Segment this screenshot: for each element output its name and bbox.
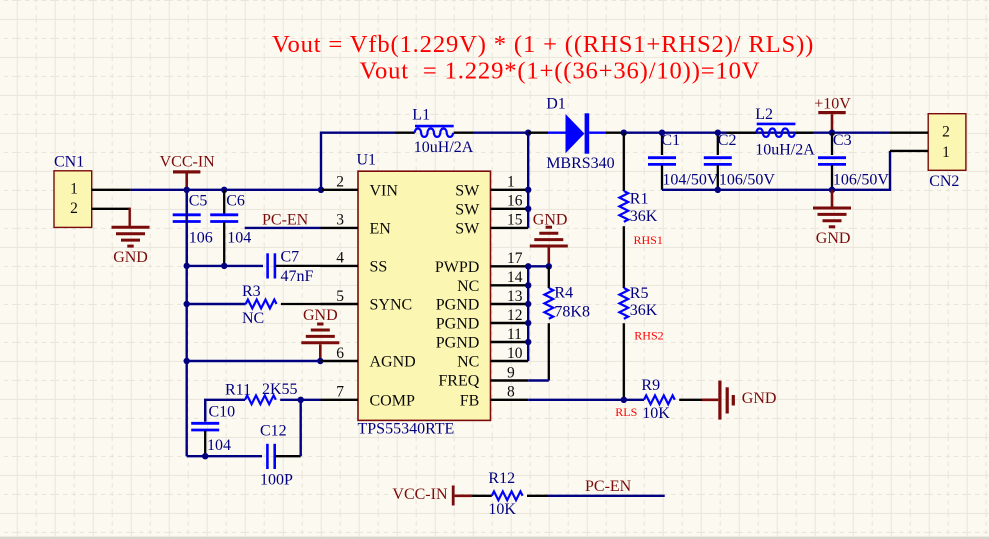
wire bottom rail to C12 (187, 455, 262, 457)
net label PC-EN (262, 211, 309, 228)
svg-text:SS: SS (370, 258, 388, 275)
wire FREQ pin9 to R4 (528, 379, 549, 381)
svg-text:2K55: 2K55 (262, 381, 298, 398)
capacitor C12 (260, 423, 301, 489)
U1 pin 9 FREQ (438, 364, 528, 389)
svg-text:R4: R4 (554, 285, 573, 302)
svg-text:GND: GND (742, 390, 777, 407)
svg-text:10K: 10K (488, 501, 516, 518)
power port +10V (814, 95, 851, 132)
U1 pin 13 PGND (436, 288, 528, 314)
svg-text:R1: R1 (630, 191, 649, 208)
svg-text:COMP: COMP (370, 392, 415, 409)
capacitor C3 (818, 132, 889, 190)
svg-text:Vout = Vfb(1.229V) * (1 + ((RH: Vout = Vfb(1.229V) * (1 + ((RHS1+RHS2)/ … (272, 31, 814, 58)
svg-text:L1: L1 (412, 107, 430, 124)
op-amp U1 TPS55340RTE body (357, 152, 491, 438)
svg-text:U1: U1 (357, 152, 377, 169)
svg-text:106/50V: 106/50V (833, 172, 889, 189)
U1 pin 10 NC (457, 345, 528, 371)
svg-text:RHS2: RHS2 (634, 329, 663, 343)
svg-text:GND: GND (113, 249, 148, 266)
svg-text:L2: L2 (755, 106, 773, 123)
svg-text:R5: R5 (630, 285, 649, 302)
node junction SW on top rail (525, 130, 531, 136)
capacitor C7 (268, 249, 321, 285)
resistor R5 (619, 285, 657, 400)
U1 pin 2 VIN (321, 174, 399, 200)
svg-text:11: 11 (507, 326, 522, 343)
svg-text:VCC-IN: VCC-IN (392, 486, 448, 503)
net label RLS (615, 405, 637, 419)
node junction VCC-IN / C5 (184, 187, 190, 193)
node junction C10 bottom (202, 453, 208, 459)
svg-text:R3: R3 (242, 283, 261, 300)
U1 pin 1 SW (455, 174, 528, 200)
node junction pin11 (525, 339, 531, 345)
resistor R4 (544, 266, 590, 380)
capacitor C5 (173, 190, 213, 266)
U1 pin 14 NC (457, 269, 528, 295)
svg-text:C2: C2 (718, 132, 737, 149)
wire PC-EN bottom net (548, 495, 665, 497)
wire top rail left segment + riser to VIN (321, 133, 395, 190)
svg-text:78K8: 78K8 (554, 304, 590, 321)
node junction C6 bottom (221, 263, 227, 269)
svg-text:104: 104 (227, 230, 251, 247)
svg-text:RLS: RLS (615, 405, 637, 419)
wire VIN net: CN1 to U1 pin 2 (131, 189, 321, 191)
wire COMP to U1 pin 7 (301, 399, 321, 401)
wire output bottom rail C1..C3 to CN2 (662, 151, 890, 190)
svg-text:C5: C5 (189, 192, 208, 209)
inductor L2 (727, 106, 816, 159)
svg-text:MBRS340: MBRS340 (546, 155, 614, 172)
svg-text:AGND: AGND (370, 354, 416, 371)
svg-text:FREQ: FREQ (438, 373, 479, 390)
svg-text:7: 7 (336, 384, 344, 401)
U1 pin 5 SYNC (321, 288, 413, 314)
wire SYNC from rail to R3 (187, 303, 246, 305)
wire COMP corner at C10 (205, 400, 245, 422)
U1 pin 3 EN (321, 212, 392, 238)
svg-text:16: 16 (507, 193, 523, 210)
node junction C1 top (659, 130, 665, 136)
svg-text:TPS55340RTE: TPS55340RTE (358, 421, 455, 438)
svg-text:100P: 100P (260, 471, 293, 488)
net label PC-EN bottom (585, 478, 632, 495)
formula text line 1 (272, 31, 814, 58)
svg-text:PC-EN: PC-EN (262, 211, 309, 228)
svg-text:3: 3 (336, 212, 344, 229)
CN2 pin 2 stub (890, 131, 928, 133)
capacitor C1 (648, 132, 719, 190)
resistor R11 (225, 381, 301, 404)
U1 pin 12 PGND (436, 307, 528, 333)
svg-text:SW: SW (455, 201, 480, 218)
svg-text:104: 104 (207, 437, 231, 454)
capacitor C10 (191, 400, 235, 456)
U1 pin 6 AGND (321, 345, 416, 371)
svg-text:PGND: PGND (436, 297, 480, 314)
svg-text:1: 1 (507, 174, 515, 191)
svg-text:106: 106 (189, 230, 213, 247)
CN2 pin 1 stub (890, 150, 928, 152)
svg-text:EN: EN (370, 220, 392, 237)
svg-text:C3: C3 (833, 132, 852, 149)
node junction C5 bottom (184, 263, 190, 269)
CN1 pin 2 stub (92, 208, 131, 227)
svg-text:NC: NC (457, 278, 479, 295)
svg-text:SW: SW (455, 220, 480, 237)
node junction C2 bottom (715, 187, 721, 193)
U1 pin 4 SS (321, 250, 388, 276)
resistor R1 (619, 133, 657, 288)
svg-text:17: 17 (507, 250, 523, 267)
svg-text:C6: C6 (226, 192, 245, 209)
svg-text:47nF: 47nF (281, 268, 314, 285)
node junction VIN corner riser (318, 187, 324, 193)
svg-text:PC-EN: PC-EN (585, 478, 632, 495)
wire PC-EN net to U1 pin 3 (245, 227, 321, 229)
svg-text:CN2: CN2 (929, 173, 959, 190)
svg-text:36K: 36K (630, 302, 658, 319)
node junction SW pin16 (525, 206, 531, 212)
svg-text:FB: FB (460, 392, 480, 409)
wire PGND bus vertical (527, 266, 529, 361)
wire FB net pin8 to R9 (528, 399, 644, 401)
svg-text:10K: 10K (642, 405, 670, 422)
wire L1 to SW node (473, 131, 528, 133)
U1 pin 17 PWPD (435, 250, 528, 276)
svg-text:PWPD: PWPD (435, 259, 479, 276)
svg-text:SYNC: SYNC (370, 297, 413, 314)
svg-text:GND: GND (533, 211, 568, 228)
svg-text:13: 13 (507, 288, 523, 305)
svg-text:104/50V: 104/50V (662, 172, 718, 189)
wire +10V top rail D1 to CN2 (624, 131, 890, 133)
resistor R12 (472, 470, 548, 518)
svg-text:106/50V: 106/50V (719, 172, 775, 189)
svg-text:4: 4 (336, 250, 344, 267)
node junction GND/R4 (546, 263, 552, 269)
svg-text:C12: C12 (260, 423, 287, 440)
wire SW bus vertical (527, 133, 529, 228)
svg-text:12: 12 (507, 307, 523, 324)
node junction pin13 (525, 301, 531, 307)
svg-text:R11: R11 (225, 382, 251, 399)
wire left rail vertical (VCC to bottom) (185, 190, 187, 456)
svg-text:10uH/2A: 10uH/2A (414, 139, 474, 156)
U1 pin 16 SW (455, 193, 528, 219)
svg-text:8: 8 (507, 384, 515, 401)
svg-text:VIN: VIN (370, 182, 399, 199)
connector CN2 (928, 114, 966, 190)
wire COMP net (205, 400, 245, 456)
wire AGND from rail to U1 pin 6 (187, 360, 321, 362)
svg-text:CN1: CN1 (54, 153, 84, 170)
node junction SW pin1 (525, 187, 531, 193)
svg-text:PGND: PGND (436, 335, 480, 352)
node junction D1 cathode / R1 (621, 130, 627, 136)
svg-text:5: 5 (336, 288, 344, 305)
connector CN1 (54, 153, 92, 227)
svg-text:+10V: +10V (814, 95, 851, 112)
svg-text:Vout = 1.229*(1+((36+36)/10)): Vout = 1.229*(1+((36+36)/10))=10V (360, 58, 761, 85)
node junction C12 riser on COMP (298, 397, 304, 403)
svg-text:10: 10 (507, 345, 523, 362)
svg-text:C7: C7 (281, 249, 300, 266)
svg-text:C10: C10 (209, 403, 236, 420)
svg-text:1: 1 (942, 144, 950, 161)
ground GND below C3 (813, 190, 851, 247)
node junction C3 bottom (829, 187, 835, 193)
diode D1 MBRS340 (528, 95, 624, 172)
node junction C6 top (221, 187, 227, 193)
svg-text:NC: NC (242, 310, 264, 327)
svg-text:14: 14 (507, 269, 523, 286)
svg-text:15: 15 (507, 212, 523, 229)
node junction pin12 (525, 320, 531, 326)
svg-text:1: 1 (70, 181, 78, 198)
ground GND sideways at R9 (702, 381, 776, 420)
svg-text:D1: D1 (546, 95, 566, 112)
U1 pin 7 COMP (321, 384, 415, 410)
wire SS rail C5/C6 bottom to C7 (187, 265, 263, 267)
svg-text:VCC-IN: VCC-IN (160, 154, 216, 171)
node junction C2 top (715, 130, 721, 136)
resistor R3 (242, 283, 321, 327)
net label RHS2 (634, 329, 663, 343)
U1 pin 11 PGND (436, 326, 528, 352)
U1 pin 8 FB (460, 384, 528, 410)
svg-text:R9: R9 (641, 377, 660, 394)
svg-text:NC: NC (457, 354, 479, 371)
svg-text:36K: 36K (630, 208, 658, 225)
net label RHS1 (634, 233, 663, 247)
svg-text:GND: GND (303, 307, 338, 324)
svg-text:PGND: PGND (436, 316, 480, 333)
node junction R5/R9/FB (621, 397, 627, 403)
inductor L1 (395, 107, 474, 156)
resistor R9 (641, 377, 702, 422)
node junction AGND on rail (184, 358, 190, 364)
svg-text:GND: GND (816, 230, 851, 247)
node junction +10V / C3 (829, 130, 835, 136)
node junction pin17 bus (525, 263, 531, 269)
power port VCC-IN bottom (392, 486, 472, 506)
CN1 pin 1 stub (92, 189, 131, 191)
wire PWPD pin17 to R4/GND (528, 265, 549, 267)
ground GND at CN1 (112, 227, 150, 266)
node junction GND stem on AGND (317, 358, 323, 364)
svg-text:RHS1: RHS1 (634, 233, 663, 247)
node junction pin14 (525, 282, 531, 288)
svg-text:SW: SW (455, 182, 480, 199)
svg-text:9: 9 (507, 364, 515, 381)
capacitor C6 (210, 190, 251, 266)
svg-text:R12: R12 (488, 470, 515, 487)
node junction SYNC on rail (184, 301, 190, 307)
wire C12 riser to COMP (300, 400, 302, 456)
svg-text:10uH/2A: 10uH/2A (755, 142, 815, 159)
U1 pin 15 SW (455, 212, 528, 238)
svg-text:2: 2 (336, 174, 344, 191)
ground GND flipped above U1 pin 17 (530, 211, 568, 266)
ground GND above AGND (flipped up) (301, 307, 339, 361)
svg-text:2: 2 (942, 124, 950, 141)
svg-text:6: 6 (336, 345, 344, 362)
svg-text:2: 2 (70, 200, 78, 217)
formula text line 2 (360, 58, 761, 85)
capacitor C2 (704, 132, 776, 190)
power port VCC-IN top (160, 154, 216, 190)
